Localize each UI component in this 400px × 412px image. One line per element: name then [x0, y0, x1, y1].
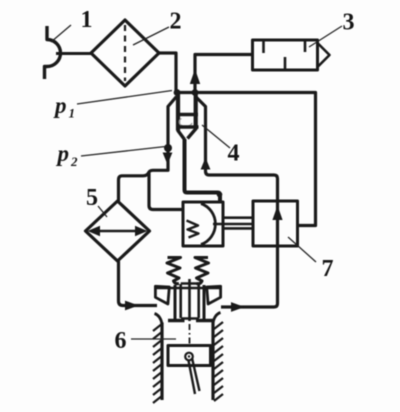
svg-text:7: 7: [322, 256, 334, 282]
svg-text:5: 5: [86, 185, 98, 211]
svg-text:2: 2: [170, 9, 182, 35]
svg-text:4: 4: [228, 141, 240, 167]
svg-text:1: 1: [69, 106, 76, 121]
svg-text:3: 3: [343, 10, 355, 36]
svg-text:1: 1: [81, 7, 93, 33]
svg-text:2: 2: [70, 154, 78, 169]
svg-text:p: p: [56, 141, 70, 166]
svg-text:p: p: [53, 93, 67, 118]
svg-text:6: 6: [115, 328, 127, 354]
